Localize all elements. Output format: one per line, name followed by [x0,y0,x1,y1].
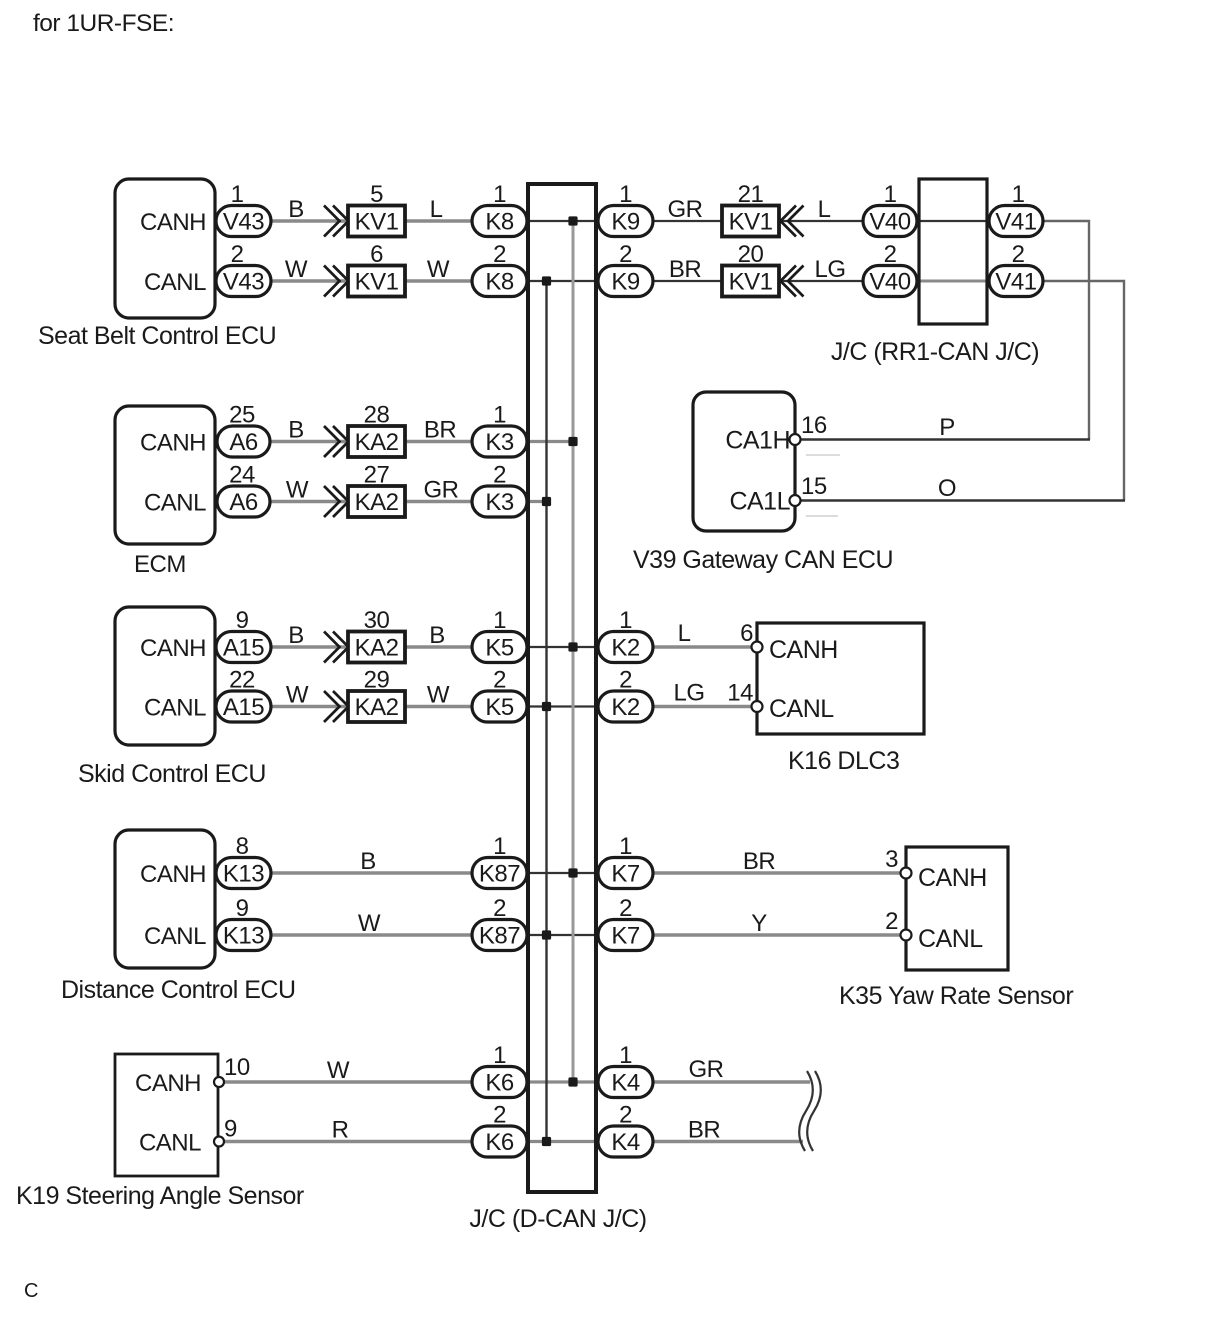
svg-text:2: 2 [885,908,898,935]
svg-text:GR: GR [689,1056,724,1083]
svg-text:V43: V43 [223,269,264,296]
svg-text:29: 29 [364,667,390,694]
svg-text:6: 6 [370,241,383,268]
svg-text:K6: K6 [485,1129,514,1156]
svg-text:9: 9 [224,1116,237,1143]
svg-text:for 1UR-FSE:: for 1UR-FSE: [33,10,174,37]
svg-text:L: L [818,196,831,223]
svg-text:2: 2 [619,895,632,922]
svg-text:25: 25 [229,402,255,429]
svg-text:W: W [286,477,309,504]
svg-text:K13: K13 [223,923,264,950]
svg-text:K8: K8 [485,209,514,236]
svg-text:K7: K7 [611,861,640,888]
svg-text:W: W [285,256,308,283]
svg-text:KV1: KV1 [729,209,773,236]
svg-text:1: 1 [493,181,506,208]
svg-text:9: 9 [236,895,249,922]
svg-text:V43: V43 [223,209,264,236]
svg-text:Skid Control ECU: Skid Control ECU [78,760,266,788]
svg-text:9: 9 [236,607,249,634]
svg-text:CANH: CANH [140,635,206,662]
svg-text:CANH: CANH [140,209,206,236]
svg-text:CA1H: CA1H [725,427,790,455]
svg-text:1: 1 [619,181,632,208]
svg-text:1: 1 [1012,181,1025,208]
svg-text:2: 2 [884,241,897,268]
svg-text:3: 3 [885,846,898,873]
svg-text:B: B [288,622,304,649]
svg-text:1: 1 [493,833,506,860]
svg-text:B: B [288,417,304,444]
svg-text:K2: K2 [611,635,640,662]
svg-text:1: 1 [493,1042,506,1069]
svg-text:J/C (D-CAN J/C): J/C (D-CAN J/C) [469,1205,646,1233]
svg-text:2: 2 [493,241,506,268]
svg-text:A6: A6 [229,489,258,516]
svg-text:K87: K87 [479,923,520,950]
svg-text:22: 22 [229,667,255,694]
svg-text:BR: BR [688,1117,721,1144]
svg-text:K7: K7 [611,923,640,950]
svg-text:10: 10 [224,1054,250,1081]
svg-text:8: 8 [236,833,249,860]
svg-text:KV1: KV1 [729,269,773,296]
svg-text:R: R [332,1117,349,1144]
svg-text:GR: GR [668,196,703,223]
svg-text:LG: LG [814,256,845,283]
svg-text:1: 1 [493,402,506,429]
svg-text:B: B [429,622,445,649]
svg-text:CANH: CANH [140,861,206,888]
svg-text:KA2: KA2 [355,429,399,456]
svg-text:W: W [327,1057,350,1084]
svg-text:A6: A6 [229,429,258,456]
svg-text:1: 1 [231,181,244,208]
svg-text:CANH: CANH [135,1070,201,1097]
svg-text:GR: GR [424,477,459,504]
svg-text:L: L [678,620,691,647]
svg-text:KA2: KA2 [355,635,399,662]
svg-text:W: W [358,910,381,937]
svg-text:BR: BR [669,256,702,283]
svg-text:6: 6 [740,620,753,647]
svg-text:CANH: CANH [140,430,206,457]
svg-text:C: C [24,1280,38,1302]
svg-text:K5: K5 [485,635,514,662]
svg-text:BR: BR [743,848,776,875]
svg-text:A15: A15 [223,694,264,721]
svg-text:K6: K6 [485,1070,514,1097]
svg-text:K35 Yaw Rate Sensor: K35 Yaw Rate Sensor [839,982,1073,1010]
svg-text:V39 Gateway CAN ECU: V39 Gateway CAN ECU [633,546,893,574]
svg-text:27: 27 [364,462,390,489]
svg-text:1: 1 [884,181,897,208]
svg-text:V40: V40 [869,269,910,296]
svg-text:CA1L: CA1L [729,488,790,516]
svg-text:CANH: CANH [769,636,838,664]
svg-text:W: W [427,682,450,709]
svg-text:O: O [938,475,956,502]
svg-text:KA2: KA2 [355,489,399,516]
svg-text:CANH: CANH [918,864,987,892]
svg-text:L: L [430,196,443,223]
svg-text:A15: A15 [223,635,264,662]
svg-text:K19 Steering Angle Sensor: K19 Steering Angle Sensor [16,1182,304,1210]
svg-text:Y: Y [751,910,767,937]
svg-text:K4: K4 [611,1129,640,1156]
svg-text:W: W [286,682,309,709]
svg-text:2: 2 [493,667,506,694]
svg-text:K13: K13 [223,861,264,888]
svg-text:ECM: ECM [134,551,186,578]
svg-text:CANL: CANL [144,269,206,296]
svg-text:LG: LG [673,680,704,707]
svg-text:W: W [427,256,450,283]
svg-text:21: 21 [738,181,764,208]
svg-text:KV1: KV1 [355,209,399,236]
svg-text:K2: K2 [611,694,640,721]
svg-text:1: 1 [493,607,506,634]
svg-text:J/C (RR1-CAN J/C): J/C (RR1-CAN J/C) [831,338,1039,366]
svg-text:CANL: CANL [144,923,206,950]
svg-text:2: 2 [619,667,632,694]
svg-text:KV1: KV1 [355,269,399,296]
svg-text:V40: V40 [869,209,910,236]
svg-text:K8: K8 [485,269,514,296]
svg-text:1: 1 [619,1042,632,1069]
svg-text:K9: K9 [611,209,640,236]
svg-text:K9: K9 [611,269,640,296]
svg-text:15: 15 [801,473,827,500]
svg-text:2: 2 [619,1102,632,1129]
svg-text:5: 5 [370,181,383,208]
svg-text:30: 30 [364,607,390,634]
svg-text:Distance Control ECU: Distance Control ECU [61,976,296,1004]
svg-text:P: P [939,414,955,441]
svg-text:2: 2 [493,895,506,922]
svg-text:CANL: CANL [769,695,834,723]
svg-text:28: 28 [364,402,390,429]
svg-text:CANL: CANL [918,925,983,953]
svg-text:CANL: CANL [139,1130,201,1157]
svg-text:K16 DLC3: K16 DLC3 [788,747,899,775]
svg-text:V41: V41 [995,209,1036,236]
svg-text:1: 1 [619,833,632,860]
svg-text:K87: K87 [479,861,520,888]
svg-text:2: 2 [493,462,506,489]
svg-text:K5: K5 [485,694,514,721]
svg-text:16: 16 [801,412,827,439]
svg-text:2: 2 [231,241,244,268]
svg-text:V41: V41 [995,269,1036,296]
svg-text:KA2: KA2 [355,694,399,721]
svg-text:1: 1 [619,607,632,634]
svg-text:24: 24 [229,462,255,489]
svg-text:CANL: CANL [144,695,206,722]
svg-text:CANL: CANL [144,490,206,517]
svg-text:K3: K3 [485,489,514,516]
svg-text:K4: K4 [611,1070,640,1097]
svg-text:K3: K3 [485,429,514,456]
svg-text:B: B [288,196,304,223]
svg-text:14: 14 [727,680,753,707]
svg-text:20: 20 [738,241,764,268]
svg-text:2: 2 [1012,241,1025,268]
svg-text:BR: BR [424,417,457,444]
svg-text:B: B [360,848,376,875]
svg-text:2: 2 [619,241,632,268]
svg-text:Seat Belt Control ECU: Seat Belt Control ECU [38,322,276,350]
svg-text:2: 2 [493,1102,506,1129]
